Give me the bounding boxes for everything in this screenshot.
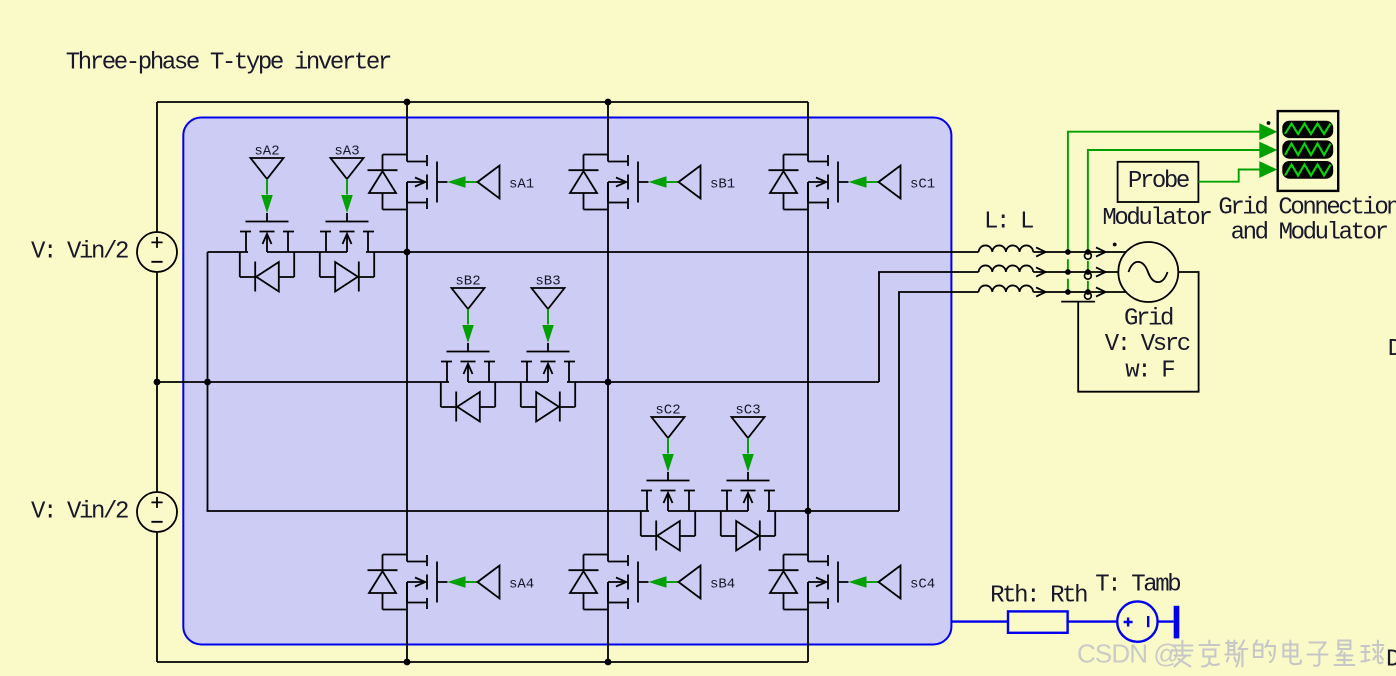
waveform 1	[1285, 124, 1331, 135]
wire: left DC link (lower segment)	[156, 532, 158, 662]
wire: phase leg B	[607, 102, 609, 662]
svg-text:Grid: Grid	[1124, 306, 1173, 333]
node: top rail leg A	[404, 99, 411, 106]
wire: phase A midpoint rail	[208, 251, 1127, 253]
svg-text:V: Vsrc: V: Vsrc	[1105, 331, 1190, 358]
voltage source V2	[137, 492, 177, 532]
svg-text:Rth: Rth: Rth: Rth	[990, 583, 1087, 610]
scope screen 2	[1282, 140, 1333, 158]
wire: DC+ top rail	[157, 101, 808, 103]
svg-text:CSDN @: CSDN @	[1077, 639, 1179, 669]
tap node A col1	[1065, 249, 1071, 255]
sine wave inside grid source	[1129, 262, 1168, 282]
arrow phase B after coil	[1036, 267, 1046, 276]
wire: phase C output riser	[899, 292, 1126, 511]
wire: phase leg A	[406, 102, 408, 662]
svg-text:D: D	[1388, 336, 1396, 363]
wire: phase C midpoint rail	[207, 510, 900, 512]
scope input arrow 2	[1259, 142, 1277, 159]
transistor sC2	[641, 417, 695, 551]
subsystem box (T-type inverter region)	[183, 118, 951, 645]
wire: grid neutral stem and return loop	[1078, 272, 1198, 392]
waveform 2	[1285, 144, 1331, 156]
wire: left DC link (middle segment)	[156, 272, 158, 492]
transistor sA4	[368, 555, 500, 610]
thermal source T: Tamb	[1117, 601, 1157, 641]
svg-text:D: D	[1386, 647, 1396, 674]
thermal wire source to ground	[1158, 620, 1174, 622]
svg-text:sB4: sB4	[710, 577, 735, 593]
svg-text:sA2: sA2	[254, 144, 279, 160]
node: top rail leg B	[605, 99, 612, 106]
thermal wire resistor to source	[1068, 620, 1118, 622]
waveform 3	[1285, 165, 1331, 176]
scope body	[1278, 111, 1339, 191]
inductor L phase C	[979, 285, 1034, 292]
svg-text:sC1: sC1	[910, 177, 935, 193]
transistor sA3 (mirrored)	[320, 158, 374, 292]
svg-text:sC4: sC4	[910, 577, 935, 593]
thermal wire from subsystem	[951, 620, 1008, 622]
transistor sC4	[769, 555, 901, 610]
tap node B col1	[1065, 269, 1071, 275]
svg-text:and Modulator: and Modulator	[1231, 219, 1388, 246]
watermark CSDN	[1077, 639, 1179, 669]
transistor sB3 (mirrored)	[521, 288, 575, 422]
plus sign in thermal source	[1124, 618, 1133, 627]
node: neutral link tee	[204, 379, 211, 386]
svg-text:L: L: L: L	[984, 209, 1033, 236]
svg-text:w: F: w: F	[1125, 357, 1174, 384]
arrow phase A after coil	[1036, 247, 1046, 256]
transistor sC1	[769, 155, 901, 210]
arrow phase C after coil	[1036, 287, 1046, 296]
svg-text:Modulator: Modulator	[1102, 205, 1211, 232]
wire: phase leg C	[807, 102, 809, 662]
wire: neutral mid rail	[157, 381, 879, 383]
inductor L phase A	[979, 245, 1034, 252]
node: bottom rail leg B	[605, 659, 612, 666]
svg-text:V: Vin/2: V: Vin/2	[31, 498, 128, 525]
transistor sB1	[569, 155, 701, 210]
scope input arrow 3	[1259, 161, 1277, 178]
svg-text:sC2: sC2	[655, 403, 680, 419]
svg-text:sB2: sB2	[455, 274, 480, 290]
tap node C col2 with meter ring	[1085, 289, 1092, 299]
minus bar in thermal source	[1147, 616, 1149, 627]
probe block Modulator	[1118, 162, 1199, 202]
transistor sA1	[368, 155, 500, 210]
scope input arrow 1	[1259, 123, 1277, 140]
svg-text:Three-phase T-type inverter: Three-phase T-type inverter	[66, 50, 391, 77]
svg-text:Grid Connection: Grid Connection	[1218, 195, 1396, 222]
scope screen 1	[1282, 121, 1333, 138]
node: phase C output	[805, 508, 812, 515]
thermal resistor Rth	[1008, 611, 1068, 632]
scope screen 3	[1282, 161, 1333, 179]
grid neutral bar	[1061, 301, 1095, 303]
svg-text:sB3: sB3	[535, 274, 560, 290]
transistor sA2	[240, 158, 294, 292]
wire: neutral point vertical link	[207, 252, 209, 511]
transistor sC3 (mirrored)	[721, 417, 775, 551]
wire: phase B output riser	[879, 272, 1118, 382]
arrow phase C at source	[1096, 287, 1106, 296]
node: bottom rail leg A	[404, 659, 411, 666]
signal wire: voltage tap column 1 to scope input 1	[1068, 132, 1260, 292]
tap node A col2 with meter ring	[1085, 249, 1092, 259]
arrow phase A at source	[1096, 247, 1106, 256]
transistor sB4	[569, 555, 701, 610]
thermal ground bar	[1174, 606, 1180, 639]
watermark CJK glyph strokes	[1172, 641, 1383, 667]
wire: left DC link (upper segment)	[156, 102, 158, 232]
dot near scope input 1	[1267, 121, 1271, 125]
tap node B col2 with meter ring	[1085, 269, 1092, 279]
svg-text:Probe: Probe	[1128, 168, 1189, 195]
inductor L phase B	[979, 265, 1034, 272]
svg-text:sC3: sC3	[735, 403, 760, 419]
transistor sB2	[441, 288, 495, 422]
svg-text:sA3: sA3	[334, 144, 359, 160]
node: phase B output	[605, 379, 612, 386]
svg-text:V: Vin/2: V: Vin/2	[31, 238, 128, 265]
svg-text:sB1: sB1	[710, 177, 735, 193]
svg-text:sA4: sA4	[509, 577, 534, 593]
wire: DC- bottom rail	[157, 661, 808, 663]
phase marker dot of grid source	[1113, 243, 1117, 247]
node: DC midpoint	[154, 379, 161, 386]
svg-text:T: Tamb: T: Tamb	[1095, 572, 1180, 599]
grid AC source circle	[1118, 242, 1178, 302]
arrow phase B at source	[1096, 267, 1106, 276]
voltage source V1	[137, 232, 177, 272]
signal wire: probe to scope input 3	[1198, 170, 1260, 182]
svg-text:sA1: sA1	[509, 177, 534, 193]
signal wire: voltage tap column 2 to scope input 2	[1088, 150, 1260, 292]
node: phase A output	[404, 249, 411, 256]
tap node C col1	[1065, 289, 1071, 295]
